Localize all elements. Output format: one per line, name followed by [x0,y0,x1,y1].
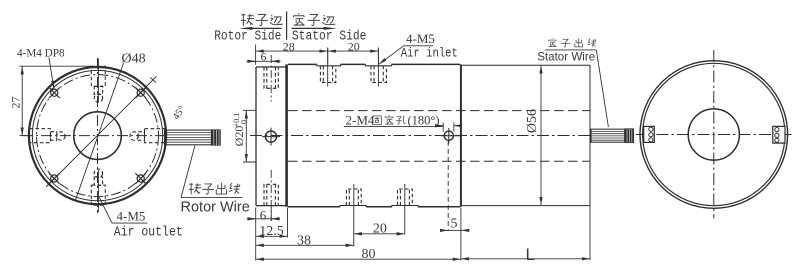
svg-text:4-M5: 4-M5 [406,31,435,46]
svg-text:Air outlet: Air outlet [114,225,183,240]
svg-text:4-M4 DP8: 4-M4 DP8 [17,48,65,60]
svg-text:6: 6 [260,208,267,223]
svg-text:45°: 45° [171,104,188,122]
svg-text:Stator Wire: Stator Wire [537,51,595,64]
svg-text:20: 20 [348,39,360,53]
svg-text:28: 28 [283,39,295,53]
svg-text:27: 27 [9,97,23,109]
svg-text:Ø48: Ø48 [122,52,146,67]
svg-text:0: 0 [240,120,249,124]
svg-text:Air inlet: Air inlet [401,45,458,60]
svg-text:6: 6 [261,49,267,63]
svg-text:80: 80 [362,247,376,262]
svg-text:Rotor Side: Rotor Side [214,27,281,44]
svg-text:+0.1: +0.1 [232,113,241,128]
svg-text:4-M5: 4-M5 [117,209,146,224]
svg-text:2-M4: 2-M4 [346,113,375,128]
svg-text:38: 38 [297,233,311,248]
svg-text:20: 20 [373,222,387,237]
svg-text:12.5: 12.5 [259,224,284,239]
svg-text:5: 5 [451,217,458,232]
svg-text:Ø56: Ø56 [525,109,540,133]
svg-text:L: L [526,245,535,264]
svg-text:Rotor Wire: Rotor Wire [181,199,250,215]
svg-text:Ø20: Ø20 [232,126,246,147]
svg-text:(180°): (180°) [408,114,440,128]
